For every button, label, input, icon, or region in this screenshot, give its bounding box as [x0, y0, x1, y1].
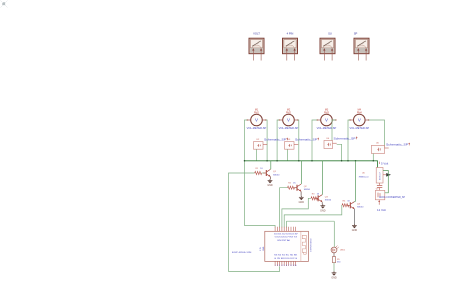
MCU top pins [275, 227, 295, 232]
origin marker [1, 1, 8, 8]
transistor Q1 [263, 169, 280, 176]
svg-text:G 3V EN IO0 IO2 G: G 3V EN IO0 IO2 G [274, 258, 298, 260]
transistor Q2 [294, 184, 311, 191]
voltmeter M3 [317, 109, 337, 131]
svg-text:VOLT: VOLT [253, 31, 260, 35]
wire R1 to Q1 [262, 172, 266, 174]
svg-text:Schematic_SP: Schematic_SP [386, 144, 409, 147]
svg-text:GND: GND [352, 229, 358, 232]
svg-text:LED1: LED1 [340, 250, 346, 252]
resistor R2 [288, 183, 297, 190]
svg-text:7: 7 [288, 265, 289, 267]
wire U2 bottom to rail [256, 149, 258, 161]
svg-text:G D5 D6 D7 RX TX: G D5 D6 D7 RX TX [275, 237, 298, 239]
wire Q1 emitter [269, 177, 271, 179]
voltmeter M1 [247, 109, 267, 131]
voltmeter M2 [279, 109, 299, 131]
svg-text:V: V [255, 118, 258, 123]
svg-text:2: 2 [277, 265, 278, 267]
meter PM4 [354, 31, 369, 60]
svg-text:10: 10 [295, 265, 297, 267]
optocoupler U4 [324, 136, 358, 148]
wire U5 bottom to rail [372, 154, 374, 161]
svg-text:GND: GND [263, 246, 265, 251]
MCU bottom pins [275, 261, 295, 266]
wire M3 right down to U4 [332, 120, 336, 141]
ground Q1 [267, 179, 273, 187]
regulator output pin arrow [383, 173, 391, 177]
wire LED feed [286, 221, 334, 247]
ground Q2 [299, 196, 305, 204]
wire Q3 base net [282, 198, 311, 227]
svg-text:VOL-METER-SP: VOL-METER-SP [279, 127, 299, 130]
svg-text:SU: SU [328, 31, 332, 35]
MCU bottom pin numbers [275, 265, 297, 267]
wire M3 left down [312, 120, 317, 161]
resistor R4 [342, 200, 351, 207]
wire Q4 base net [284, 205, 342, 227]
svg-text:V: V [325, 118, 328, 123]
wire M4 right to U5 [369, 120, 385, 148]
svg-text:VOL-METER-SP: VOL-METER-SP [350, 127, 370, 130]
svg-text:GND: GND [331, 277, 337, 280]
svg-text:AMS1117: AMS1117 [379, 172, 382, 180]
svg-text:12 Volt: 12 Volt [377, 208, 386, 212]
optocoupler U5 [372, 143, 411, 154]
wire R2 to Q2 [295, 187, 297, 189]
wire LED to R5 [333, 253, 335, 257]
wire Q1 base net [229, 173, 280, 271]
svg-text:V: V [358, 118, 361, 123]
wire M4 left down [348, 120, 350, 161]
capacitor C1 [377, 183, 382, 190]
wire Q1 collector to rail [269, 161, 271, 169]
wire R4 to Q4 [349, 204, 350, 206]
transistor Q4 [347, 202, 364, 209]
svg-text:ESP8266MOD: ESP8266MOD [310, 238, 312, 252]
svg-text:4 PIN: 4 PIN [287, 31, 294, 35]
meter PM2 [283, 31, 298, 60]
ground Q3 [320, 204, 326, 212]
wire 5V rail [245, 161, 378, 168]
regulator U6 [359, 168, 384, 184]
resistor R3 [311, 193, 320, 200]
svg-text:D0 D1 D2 D3 D4 3V: D0 D1 D2 D3 D4 3V [274, 234, 298, 236]
converter module U7 [375, 189, 405, 200]
wire R5 to ground [333, 263, 335, 272]
svg-text:Schematic_SP: Schematic_SP [334, 137, 357, 140]
wire M2 left down [277, 120, 279, 161]
optocoupler U3 [285, 138, 320, 150]
wire regulator loop [383, 171, 388, 193]
svg-text:VOL-METER-SP: VOL-METER-SP [317, 127, 337, 130]
wire Q4 collector to rail [354, 161, 355, 202]
svg-text:S8050: S8050 [273, 174, 280, 176]
wire M1 right down [266, 120, 267, 161]
ground LED [331, 271, 337, 279]
meter PM3 [320, 31, 335, 60]
ground Q4 [352, 224, 358, 232]
svg-text:Schematic_SP: Schematic_SP [264, 139, 287, 142]
svg-text:78M05-5.0: 78M05-5.0 [359, 176, 370, 178]
meter PM1 [249, 31, 264, 60]
wire Q2 emitter [300, 192, 302, 196]
wire Q3 collector to rail [321, 161, 323, 195]
svg-text:SP: SP [354, 31, 358, 35]
wire U4 out to rail [337, 144, 342, 161]
junction dots [244, 160, 374, 162]
resistor R1 [255, 168, 264, 175]
wire Q4 emitter to ground [353, 209, 355, 224]
svg-text:GND: GND [267, 184, 273, 187]
svg-text:5: 5 [284, 265, 285, 267]
svg-text:V: V [287, 118, 290, 123]
svg-text:Schematic_SP: Schematic_SP [295, 139, 318, 142]
net flag 5 Volt [380, 161, 389, 165]
wire M2 right down [298, 120, 299, 161]
svg-text:GND: GND [299, 201, 305, 204]
wire Q3 emitter [321, 202, 323, 204]
svg-text:6: 6 [286, 265, 287, 267]
svg-text:5 Volt: 5 Volt [381, 161, 388, 165]
MCU U1 ESP8266 module [265, 231, 313, 261]
net flag 12 Volt [377, 200, 386, 212]
MCU left pin labels [260, 246, 265, 251]
svg-text:8: 8 [290, 265, 291, 267]
optocoupler U2 [254, 138, 289, 150]
svg-text:S8050: S8050 [357, 207, 364, 209]
svg-text:ESP-8266-12E: ESP-8266-12E [232, 252, 252, 254]
wire Q2 base net [280, 188, 288, 228]
LED D1 [331, 246, 346, 253]
transistor Q3 [315, 195, 332, 202]
svg-text:3: 3 [279, 265, 280, 267]
svg-text:VOL-METER-SP: VOL-METER-SP [247, 127, 267, 130]
svg-text:ACDC-CONVERTER_SP: ACDC-CONVERTER_SP [379, 196, 405, 199]
svg-text:S3 S2 S1 SC S0 SK: S3 S2 S1 SC S0 SK [274, 255, 298, 257]
resistor R5 [332, 257, 341, 264]
wire U3 bottom to rail [287, 149, 289, 161]
svg-text:1: 1 [275, 265, 276, 267]
svg-text:4: 4 [281, 265, 282, 267]
svg-text:S8050: S8050 [325, 200, 332, 202]
voltmeter M4 [349, 109, 369, 131]
svg-text:EN RST A0: EN RST A0 [278, 239, 292, 242]
wire Q2 collector to rail [300, 161, 302, 184]
svg-text:S8050: S8050 [304, 189, 311, 191]
svg-text:GND: GND [320, 209, 326, 212]
wire M1 left to rail and MCU pin1 [245, 120, 276, 227]
